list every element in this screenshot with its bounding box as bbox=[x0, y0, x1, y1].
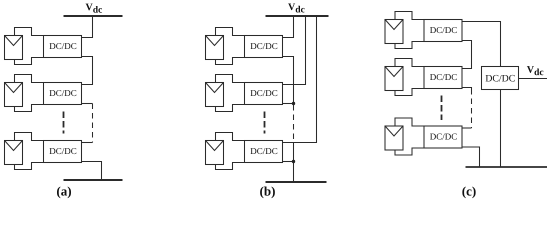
label DC/DC U2a bbox=[50, 90, 77, 96]
junction negative bus at U3b bbox=[292, 160, 295, 163]
PV module PV1a bbox=[5, 36, 23, 60]
wire U2a output- to series bus bbox=[82, 103, 93, 105]
wire PV2b negative terminal to converter input bbox=[216, 105, 245, 112]
wire U3a output- to return rail bbox=[82, 162, 102, 181]
label DC/DC U4c bbox=[486, 75, 515, 82]
label DC/DC U3b bbox=[251, 148, 278, 154]
wire PV1b negative terminal to converter input bbox=[216, 58, 245, 65]
wire U1a output+ to Vdc rail bbox=[82, 16, 93, 38]
wire U2b output+ to Vdc rail bbox=[283, 16, 306, 85]
wire PV3c positive terminal to converter input bbox=[395, 118, 424, 126]
wire U3b output+ to Vdc rail bbox=[283, 16, 317, 143]
dashed ellipsis between modules (a) bbox=[63, 112, 65, 134]
wire U1c output+ to central converter input bbox=[462, 22, 501, 67]
wire PV2a positive terminal to converter input bbox=[15, 75, 44, 83]
label DC/DC U1c bbox=[430, 27, 457, 33]
wire U1b output- down negative bus bbox=[283, 57, 294, 104]
wire PV3c negative terminal to converter input bbox=[395, 148, 424, 155]
wire PV1c negative terminal to converter input bbox=[395, 42, 424, 49]
wire PV3a negative terminal to converter input bbox=[15, 163, 44, 170]
wire U1a output- to U2a output+ (series link) bbox=[82, 57, 93, 85]
label DC/DC U3a bbox=[50, 148, 77, 154]
label DC/DC U1a bbox=[50, 43, 77, 49]
return rail bottom (b) bbox=[266, 181, 327, 183]
wire PV3b negative terminal to converter input bbox=[216, 163, 245, 170]
wire PV1b positive terminal to converter input bbox=[216, 28, 245, 36]
dc/dc converter U3a bbox=[44, 141, 82, 163]
return rail bottom (c) bbox=[466, 166, 548, 168]
dashed ellipsis between modules (c) bbox=[441, 96, 443, 121]
wire dashed series continuation (a) bbox=[92, 104, 94, 143]
PV module PV2b bbox=[206, 83, 224, 107]
wire PV2a negative terminal to converter input bbox=[15, 105, 44, 112]
PV module PV3c bbox=[385, 126, 403, 150]
central dc/dc converter U4c bbox=[482, 67, 519, 90]
dc/dc converter U2b bbox=[245, 83, 283, 105]
panel (a) cascaded architecture bbox=[5, 4, 123, 199]
dc/dc converter U1b bbox=[245, 36, 283, 58]
dc/dc converter U1c bbox=[424, 20, 462, 42]
wire negative bus to U3b and return rail bbox=[293, 142, 295, 182]
wire PV1a negative terminal to converter input bbox=[15, 58, 44, 65]
PV module PV2a bbox=[5, 83, 23, 107]
node Vdc label (a) bbox=[86, 4, 93, 11]
wire PV3a positive terminal to converter input bbox=[15, 133, 44, 141]
return rail bottom (a) bbox=[64, 179, 123, 181]
node Vdc label (c) bbox=[527, 66, 534, 73]
wire PV1c positive terminal to converter input bbox=[395, 12, 424, 20]
junction negative bus at U2b bbox=[292, 102, 295, 105]
wire PV1a positive terminal to converter input bbox=[15, 28, 44, 36]
PV module PV3b bbox=[206, 141, 224, 165]
wire PV2c positive terminal to converter input bbox=[395, 59, 424, 67]
label DC/DC U3c bbox=[430, 134, 457, 140]
wire PV3b positive terminal to converter input bbox=[216, 133, 245, 141]
wire U3c output+ from continuation bbox=[462, 127, 472, 129]
PV module PV3a bbox=[5, 141, 23, 165]
wire PV2c negative terminal to converter input bbox=[395, 89, 424, 96]
dc/dc converter U2a bbox=[44, 83, 82, 105]
wire U1b output+ to Vdc rail bbox=[283, 16, 294, 38]
dc/dc converter U3b bbox=[245, 141, 283, 163]
wire U1c output- to U2c output+ (series link) bbox=[462, 41, 472, 69]
wire central converter negative to return rail bbox=[500, 90, 502, 168]
wire central converter output to Vdc node bbox=[519, 78, 548, 80]
PV module PV2c bbox=[385, 67, 403, 91]
panel (c) cascaded modules with central converter bbox=[385, 12, 547, 199]
Vdc bus rail top (b) bbox=[266, 15, 329, 17]
dashed ellipsis between modules (b) bbox=[264, 112, 266, 134]
dc/dc converter U2c bbox=[424, 67, 462, 89]
dc/dc converter U1a bbox=[44, 36, 82, 58]
label DC/DC U1b bbox=[251, 43, 278, 49]
label DC/DC U2b bbox=[251, 90, 278, 96]
wire PV2b positive terminal to converter input bbox=[216, 75, 245, 83]
dc/dc converter U3c bbox=[424, 126, 462, 148]
wire dashed series continuation (c) bbox=[471, 89, 473, 128]
PV module PV1c bbox=[385, 20, 403, 44]
node Vdc label (b) bbox=[288, 3, 295, 10]
wire U3c output- to return rail bbox=[462, 147, 480, 167]
wire U2c output- to series bus bbox=[462, 88, 472, 90]
PV module PV1b bbox=[206, 36, 224, 60]
wire U3b output- to negative bus bbox=[283, 161, 294, 163]
label (a) bbox=[57, 186, 71, 198]
panel (b) parallel architecture bbox=[206, 3, 329, 198]
label DC/DC U2c bbox=[430, 74, 457, 80]
Vdc bus rail top (a) bbox=[64, 15, 123, 17]
wire U3a output+ from continuation bbox=[82, 142, 93, 144]
wire U2b output- to negative bus bbox=[283, 103, 294, 105]
label (b) bbox=[260, 186, 275, 198]
label (c) bbox=[462, 186, 475, 198]
wire dashed negative bus continuation (b) bbox=[293, 105, 295, 142]
